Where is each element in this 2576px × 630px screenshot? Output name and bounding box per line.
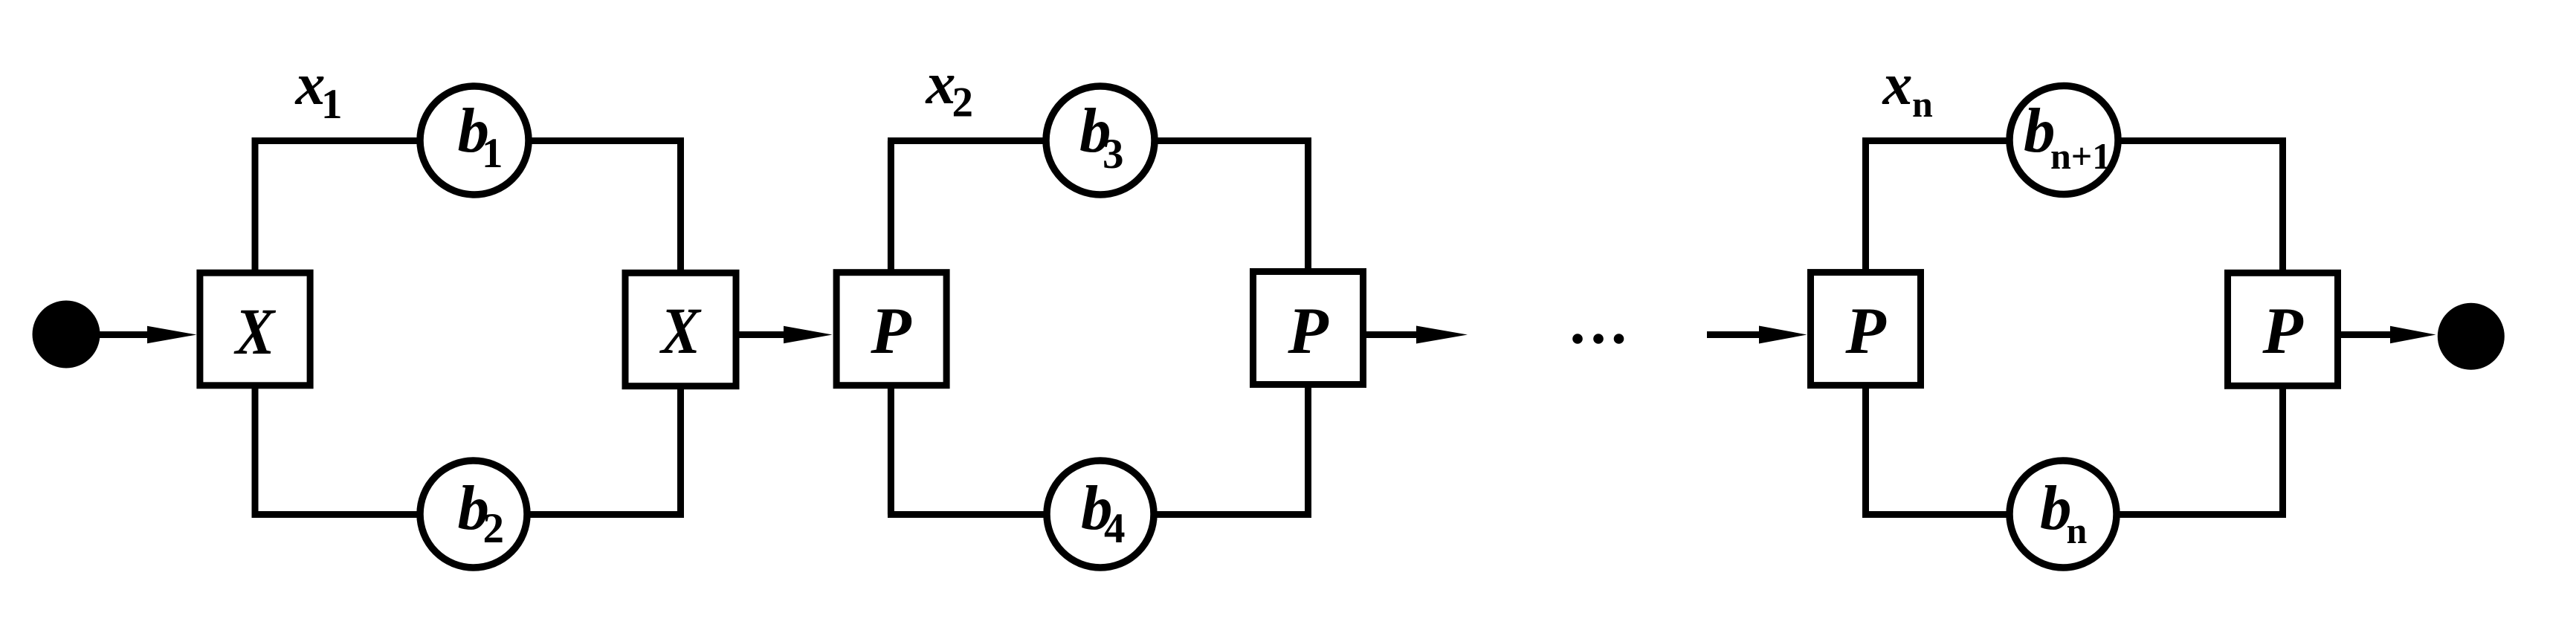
arrow P4 to end place [2340,331,2394,338]
svg-text:n+1: n+1 [2050,135,2111,177]
wire group3 bottom-left vertical [1862,383,1869,515]
place b3 [1046,86,1155,195]
wire group3 bottom-right vertical [2279,383,2286,515]
wire group1 bottom rail [252,511,685,518]
wire group3 top-right vertical [2279,141,2286,277]
arrow X2 to P1 [738,331,787,338]
place b4 [1047,461,1154,568]
wire group1 top-right vertical [677,141,684,277]
svg-text:1: 1 [482,130,503,177]
place b1 [420,86,529,195]
svg-text:n: n [1912,83,1933,125]
svg-text:4: 4 [1104,505,1126,552]
wire group1 bottom-left vertical [252,383,259,515]
svg-text:P: P [1844,295,1886,368]
arrow into P3 [1707,331,1763,338]
svg-text:1: 1 [321,81,343,128]
svg-text:x: x [1882,52,1913,117]
svg-text:P: P [870,295,911,368]
arrow out of P2 [1366,331,1420,338]
place b2 [420,461,527,568]
svg-text:2: 2 [952,79,974,126]
wire group2 top-right vertical [1305,141,1311,277]
start place (filled token) [33,301,100,368]
svg-text:x: x [926,51,956,117]
wire group1 top rail [252,137,685,144]
wire group3 bottom rail [1862,511,2286,518]
svg-text:X: X [233,296,277,368]
wire group3 top rail [1862,137,2286,144]
wire group1 bottom-right vertical [677,383,684,515]
svg-text:P: P [2262,295,2303,368]
transition X1 [200,273,310,386]
wire group2 top-left vertical [888,141,894,277]
wire group2 top rail [888,137,1311,144]
place bn+1 [2010,86,2118,195]
transition P2 [1253,272,1363,385]
transition P4 [2228,273,2338,386]
end place (filled token) [2438,303,2505,370]
svg-text:2: 2 [483,505,505,552]
transition P3 [1811,273,1921,386]
wire group3 top-left vertical [1862,141,1869,277]
transition P1 [836,273,946,386]
svg-text:P: P [1287,295,1329,368]
ellipsis dots [1572,334,1583,344]
arrow start to X1 [98,331,150,338]
svg-text:n: n [2067,510,2088,551]
svg-text:3: 3 [1103,131,1124,178]
wire group1 top-left vertical [252,141,259,277]
wire group2 bottom-left vertical [888,383,894,515]
wire group2 bottom rail [888,511,1311,518]
wire group2 bottom-right vertical [1305,383,1311,515]
transition X2 [625,273,736,386]
place bn [2010,461,2117,568]
svg-text:X: X [659,295,702,368]
